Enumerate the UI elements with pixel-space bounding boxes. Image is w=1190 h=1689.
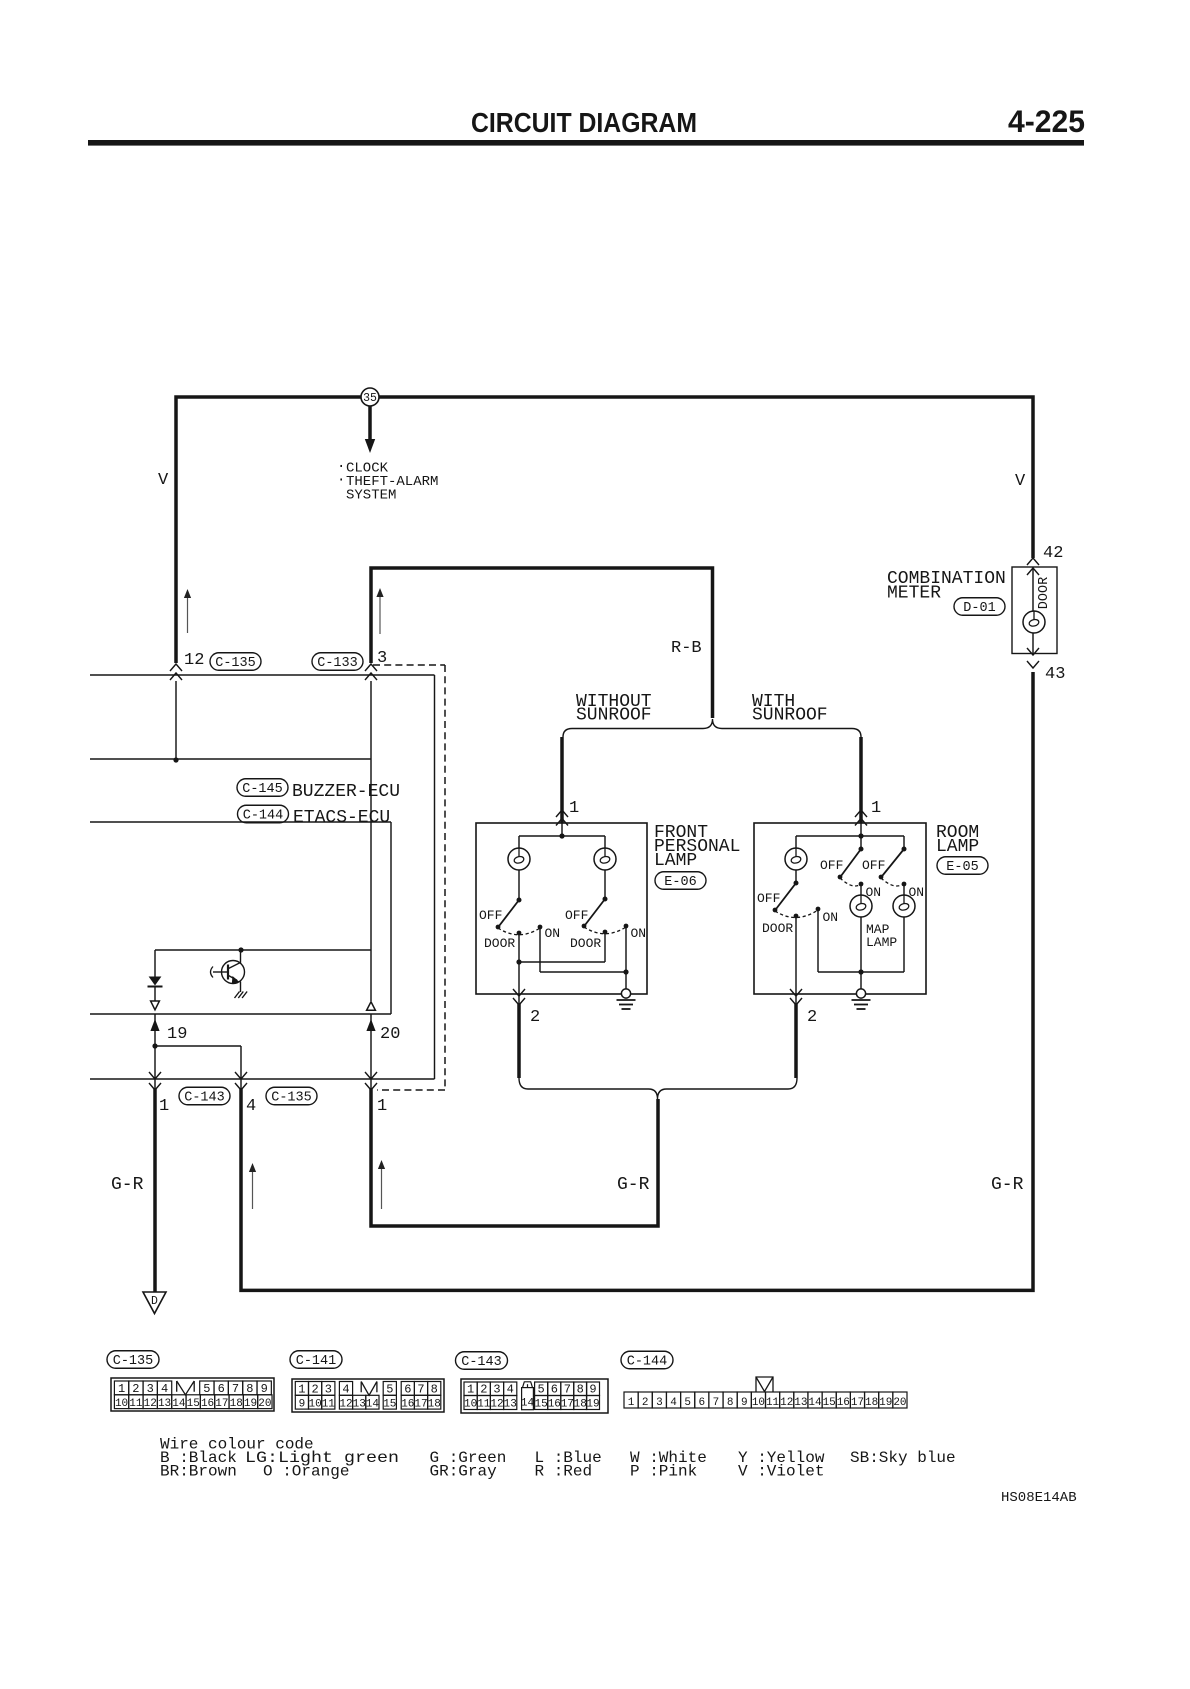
svg-text:6: 6	[551, 1383, 558, 1397]
svg-text:13: 13	[794, 1397, 807, 1409]
svg-text:BR:Brown: BR:Brown	[160, 1463, 237, 1481]
svg-text:12: 12	[144, 1398, 157, 1410]
svg-text:12: 12	[184, 651, 204, 670]
svg-text:C-135: C-135	[271, 1091, 312, 1106]
svg-text:DOOR: DOOR	[1037, 577, 1052, 609]
svg-text:13: 13	[353, 1398, 366, 1410]
svg-text:E-05: E-05	[946, 860, 978, 875]
svg-text:35: 35	[363, 392, 377, 405]
svg-text:1: 1	[467, 1383, 474, 1397]
svg-text:10: 10	[308, 1398, 321, 1410]
svg-text:5: 5	[386, 1383, 393, 1397]
svg-text:7: 7	[417, 1383, 424, 1397]
svg-text:ETACS-ECU: ETACS-ECU	[293, 808, 390, 828]
svg-text:14: 14	[366, 1398, 380, 1410]
svg-text:18: 18	[574, 1399, 587, 1411]
svg-text:1: 1	[871, 799, 881, 818]
svg-text:16: 16	[548, 1399, 561, 1411]
svg-text:LAMP: LAMP	[936, 837, 979, 857]
svg-text:13: 13	[158, 1398, 171, 1410]
svg-text:C-145: C-145	[242, 782, 283, 797]
svg-text:E-06: E-06	[664, 875, 696, 890]
svg-text:15: 15	[534, 1399, 547, 1411]
svg-text:2: 2	[480, 1383, 487, 1397]
svg-text:3: 3	[377, 649, 387, 668]
svg-text:11: 11	[129, 1398, 143, 1410]
svg-text:C-143: C-143	[461, 1355, 502, 1370]
svg-text:19: 19	[586, 1399, 599, 1411]
svg-text:C-143: C-143	[184, 1091, 225, 1106]
svg-text:15: 15	[187, 1398, 200, 1410]
svg-text:6: 6	[404, 1383, 411, 1397]
svg-text:3: 3	[493, 1383, 500, 1397]
svg-text:G-R: G-R	[617, 1175, 650, 1195]
svg-text:OFF: OFF	[820, 858, 843, 873]
svg-text:9: 9	[299, 1398, 306, 1410]
svg-text:19: 19	[167, 1025, 187, 1044]
svg-text:13: 13	[504, 1399, 517, 1411]
svg-text:D-01: D-01	[963, 601, 995, 616]
svg-text:C-135: C-135	[113, 1354, 154, 1369]
svg-text:ON: ON	[823, 910, 839, 925]
svg-text:ON: ON	[631, 926, 647, 941]
svg-text:OFF: OFF	[757, 891, 780, 906]
svg-text:G-R: G-R	[111, 1175, 144, 1195]
svg-text:1: 1	[569, 799, 579, 818]
svg-text:METER: METER	[887, 584, 941, 604]
svg-text:OFF: OFF	[565, 908, 588, 923]
svg-text:7: 7	[713, 1397, 720, 1409]
svg-text:8: 8	[246, 1382, 253, 1396]
svg-text:10: 10	[115, 1398, 128, 1410]
svg-text:5: 5	[203, 1382, 210, 1396]
svg-text:2: 2	[642, 1397, 649, 1409]
svg-text:1: 1	[159, 1097, 169, 1116]
svg-text:3: 3	[656, 1397, 663, 1409]
svg-text:17: 17	[851, 1397, 864, 1409]
svg-text:20: 20	[893, 1397, 906, 1409]
svg-text:10: 10	[464, 1399, 477, 1411]
svg-text:DOOR: DOOR	[762, 921, 793, 936]
svg-text:17: 17	[414, 1398, 427, 1410]
svg-text:DOOR: DOOR	[570, 936, 601, 951]
svg-text:2: 2	[311, 1383, 318, 1397]
svg-text:P :Pink: P :Pink	[630, 1463, 697, 1481]
svg-text:C-141: C-141	[296, 1354, 337, 1369]
svg-text:C-133: C-133	[317, 656, 358, 671]
svg-text:18: 18	[865, 1397, 878, 1409]
svg-text:CIRCUIT DIAGRAM: CIRCUIT DIAGRAM	[471, 107, 697, 138]
svg-text:·: ·	[337, 473, 345, 489]
svg-text:BUZZER-ECU: BUZZER-ECU	[292, 782, 400, 802]
svg-text:8: 8	[727, 1397, 734, 1409]
svg-text:12: 12	[339, 1398, 352, 1410]
svg-text:5: 5	[537, 1383, 544, 1397]
svg-text:C-135: C-135	[215, 656, 256, 671]
svg-text:1: 1	[377, 1097, 387, 1116]
svg-text:LAMP: LAMP	[654, 851, 697, 871]
svg-text:10: 10	[752, 1397, 765, 1409]
svg-text:1: 1	[298, 1383, 305, 1397]
svg-text:19: 19	[879, 1397, 892, 1409]
svg-text:GR:Gray: GR:Gray	[430, 1463, 498, 1481]
svg-text:7: 7	[232, 1382, 239, 1396]
svg-text:6: 6	[218, 1382, 225, 1396]
svg-text:9: 9	[741, 1397, 748, 1409]
svg-text:11: 11	[477, 1399, 491, 1411]
svg-text:11: 11	[322, 1398, 336, 1410]
svg-text:16: 16	[837, 1397, 850, 1409]
svg-text:2: 2	[132, 1382, 139, 1396]
svg-text:19: 19	[244, 1398, 257, 1410]
svg-text:1: 1	[118, 1382, 125, 1396]
svg-text:16: 16	[401, 1398, 414, 1410]
svg-text:3: 3	[147, 1382, 154, 1396]
svg-text:D: D	[151, 1295, 158, 1308]
svg-text:3: 3	[325, 1383, 332, 1397]
svg-text:SUNROOF: SUNROOF	[576, 706, 652, 726]
svg-text:DOOR: DOOR	[484, 936, 515, 951]
svg-text:R-B: R-B	[671, 639, 702, 658]
svg-text:OFF: OFF	[862, 858, 885, 873]
svg-text:4: 4	[670, 1397, 677, 1409]
svg-text:12: 12	[490, 1399, 503, 1411]
svg-text:O :Orange: O :Orange	[263, 1463, 349, 1481]
svg-text:HS08E14AB: HS08E14AB	[1001, 1490, 1077, 1506]
svg-text:4: 4	[507, 1383, 514, 1397]
svg-text:43: 43	[1045, 665, 1065, 684]
svg-text:17: 17	[215, 1398, 228, 1410]
svg-text:4: 4	[342, 1383, 349, 1397]
svg-text:SYSTEM: SYSTEM	[346, 488, 396, 504]
svg-text:8: 8	[577, 1383, 584, 1397]
svg-text:15: 15	[383, 1398, 396, 1410]
svg-text:18: 18	[428, 1398, 441, 1410]
svg-text:G-R: G-R	[991, 1175, 1024, 1195]
svg-text:V: V	[158, 471, 169, 490]
svg-text:20: 20	[380, 1025, 400, 1044]
svg-text:6: 6	[699, 1397, 706, 1409]
svg-text:LAMP: LAMP	[866, 935, 897, 950]
svg-text:C-144: C-144	[627, 1355, 668, 1370]
svg-text:2: 2	[530, 1008, 540, 1027]
svg-text:ON: ON	[545, 926, 561, 941]
svg-text:1: 1	[628, 1397, 635, 1409]
svg-text:12: 12	[780, 1397, 793, 1409]
svg-text:14: 14	[521, 1398, 535, 1410]
svg-text:SB:Sky blue: SB:Sky blue	[850, 1449, 956, 1467]
svg-text:V :Violet: V :Violet	[738, 1463, 824, 1481]
svg-text:14: 14	[172, 1398, 186, 1410]
svg-text:17: 17	[561, 1399, 574, 1411]
svg-text:9: 9	[261, 1382, 268, 1396]
svg-text:V: V	[1015, 472, 1026, 491]
svg-text:18: 18	[230, 1398, 243, 1410]
svg-text:C-144: C-144	[243, 809, 284, 824]
svg-text:8: 8	[431, 1383, 438, 1397]
svg-text:7: 7	[564, 1383, 571, 1397]
svg-text:SUNROOF: SUNROOF	[752, 706, 828, 726]
svg-text:2: 2	[807, 1008, 817, 1027]
svg-text:42: 42	[1043, 544, 1063, 563]
svg-text:5: 5	[684, 1397, 691, 1409]
svg-text:4-225: 4-225	[1008, 103, 1085, 139]
svg-text:16: 16	[201, 1398, 214, 1410]
svg-text:R :Red: R :Red	[535, 1463, 593, 1481]
svg-text:11: 11	[766, 1397, 780, 1409]
svg-text:4: 4	[161, 1382, 168, 1396]
svg-text:4: 4	[246, 1097, 256, 1116]
svg-text:15: 15	[823, 1397, 836, 1409]
svg-text:20: 20	[258, 1398, 271, 1410]
svg-text:9: 9	[589, 1383, 596, 1397]
svg-text:14: 14	[808, 1397, 822, 1409]
svg-text:OFF: OFF	[479, 908, 502, 923]
